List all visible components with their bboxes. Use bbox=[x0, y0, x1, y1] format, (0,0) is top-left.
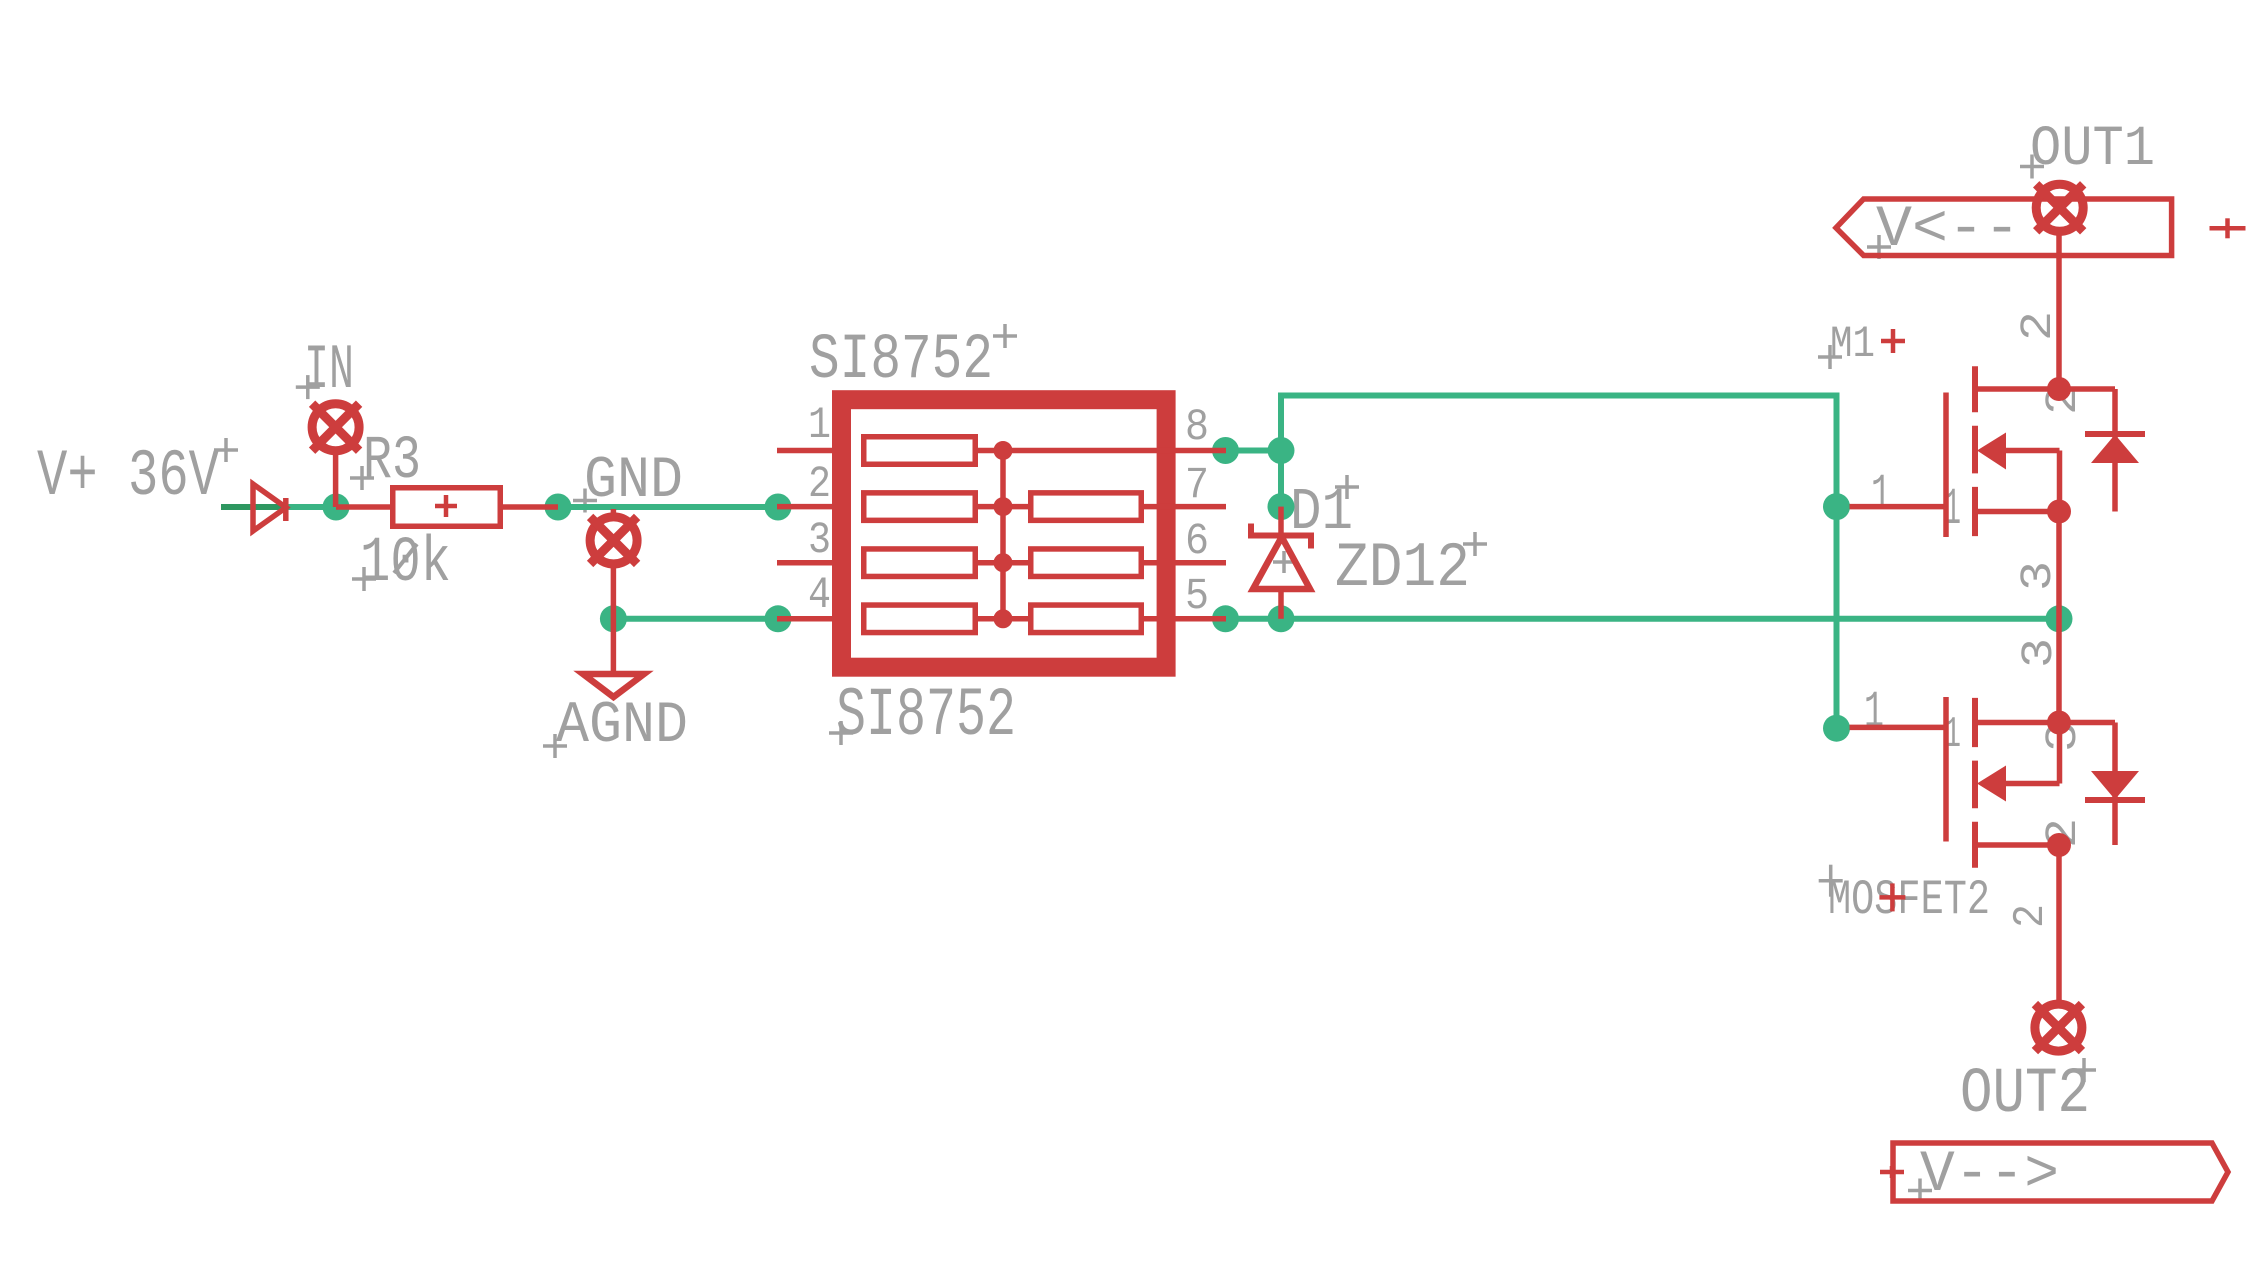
wire gate net horizontal bbox=[1278, 393, 1840, 399]
svg-text:4: 4 bbox=[808, 571, 831, 621]
wire gate net vertical bbox=[1834, 393, 1840, 729]
origin cross of ZD12 label bbox=[1463, 532, 1487, 556]
internal link right bbox=[1144, 504, 1174, 510]
wire AGND net to IC pin 4 bbox=[613, 616, 778, 622]
internal resistor right row 3 bbox=[1031, 549, 1142, 577]
junction D1 cathode bbox=[1268, 493, 1295, 520]
pad OUT1 (circle-X) bbox=[2036, 184, 2083, 231]
internal resistor left row 4 bbox=[864, 605, 976, 633]
internal link left bbox=[978, 504, 1028, 510]
red origin cross of MOSFET2 bbox=[1879, 883, 1905, 911]
transistor M1 (n-MOSFET) bbox=[1850, 366, 2146, 537]
pin 7 stub bbox=[1174, 504, 1226, 510]
zener diode D1 bbox=[1251, 507, 1311, 619]
internal link row 1 bbox=[978, 448, 1174, 454]
origin cross of MOSFET2 label bbox=[1819, 865, 1843, 897]
junction MOSFET2 pin3 bbox=[2047, 711, 2071, 735]
origin cross of M1 label bbox=[1818, 345, 1842, 369]
junction T pin8/gate net bbox=[1268, 437, 1295, 464]
svg-text:V+ 36V: V+ 36V bbox=[37, 439, 219, 514]
junction at R3 input bbox=[323, 494, 350, 521]
transistor MOSFET2 (n-MOSFET, mirrored) bbox=[1850, 697, 2146, 868]
internal resistor right row 4 bbox=[1031, 605, 1142, 633]
junction MOSFET2 gate bbox=[1823, 715, 1850, 742]
junction M1 drain bbox=[2047, 377, 2071, 401]
junction AGND net bbox=[600, 605, 627, 632]
svg-text:6: 6 bbox=[1185, 517, 1209, 567]
wire pin5 to D1 anode bbox=[1226, 616, 1282, 622]
op-isolator U1 SI8752 box bbox=[842, 400, 1167, 668]
pin 8 stub bbox=[1174, 448, 1226, 454]
junction IC pin 8 bbox=[1212, 437, 1239, 464]
internal junction bbox=[994, 609, 1013, 628]
origin cross inside D1 bbox=[1273, 551, 1295, 573]
wire up to corner bbox=[1278, 396, 1284, 451]
svg-text:5: 5 bbox=[1185, 572, 1209, 622]
internal link left bbox=[978, 560, 1028, 566]
svg-text:1: 1 bbox=[1864, 683, 1884, 742]
wire MOSFET2 to OUT2 pad bbox=[2056, 845, 2062, 1004]
origin cross of R3 label bbox=[350, 466, 374, 490]
internal resistor right row 2 bbox=[1031, 493, 1142, 520]
svg-text:AGND: AGND bbox=[556, 694, 688, 759]
resistor R3 left lead bbox=[336, 504, 392, 510]
wire V+ net dark segment bbox=[221, 504, 286, 510]
pin 1 stub bbox=[777, 448, 832, 454]
resistor R3 right lead bbox=[500, 504, 558, 510]
internal resistor left row 3 bbox=[864, 549, 976, 577]
wire down to D1 cathode bbox=[1278, 451, 1284, 507]
junction at R3 output bbox=[545, 494, 572, 521]
origin cross of flag V<-- bbox=[1867, 235, 1891, 259]
svg-text:SI8752: SI8752 bbox=[836, 677, 1016, 755]
resistor R3 body bbox=[393, 488, 501, 527]
internal link left bbox=[978, 616, 1028, 622]
pad GND (circle-X) bbox=[590, 517, 637, 564]
internal junction bbox=[994, 497, 1013, 516]
internal bus vertical bbox=[1000, 451, 1006, 619]
svg-text:2: 2 bbox=[808, 460, 831, 510]
slash of zero in 10k bbox=[394, 544, 417, 573]
pin wire pad IN to net bbox=[333, 451, 339, 507]
svg-text:1: 1 bbox=[808, 401, 831, 451]
input port arrow bbox=[253, 484, 286, 531]
junction IC pin 5 bbox=[1212, 605, 1239, 632]
origin cross of D1 label bbox=[1335, 475, 1359, 499]
wire M1 source to MOSFET2 bbox=[2056, 512, 2062, 723]
internal link right bbox=[1144, 616, 1174, 622]
pad OUT2 (circle-X) bbox=[2035, 1004, 2082, 1051]
pin 4 stub bbox=[777, 616, 832, 622]
internal resistor left row 2 bbox=[864, 493, 976, 520]
pad IN (circle-X) bbox=[312, 404, 359, 451]
origin cross of IN bbox=[296, 375, 320, 399]
pin wire GND pad upper stub bbox=[611, 509, 617, 517]
svg-text:SI8752: SI8752 bbox=[809, 325, 993, 397]
svg-text:ZD12: ZD12 bbox=[1335, 533, 1470, 604]
pin 5 stub bbox=[1174, 616, 1226, 622]
junction MOSFET2 pin2 bbox=[2047, 833, 2071, 857]
svg-text:2: 2 bbox=[2007, 904, 2056, 928]
origin cross of OUT1 bbox=[2020, 155, 2044, 179]
internal junction bbox=[994, 441, 1013, 460]
wire V+ net to junction bbox=[286, 504, 336, 510]
red origin cross of M1 bbox=[1881, 329, 1905, 353]
internal link right bbox=[1144, 560, 1174, 566]
origin cross of top SI8752 label bbox=[993, 324, 1017, 348]
internal resistor left row 1 bbox=[864, 437, 976, 465]
svg-text:3: 3 bbox=[808, 516, 831, 566]
wire OUT1 pad to M1 drain bbox=[2056, 232, 2062, 390]
junction M1 gate bbox=[1823, 493, 1850, 520]
junction IC pin 2 bbox=[765, 494, 792, 521]
junction IC pin 4 bbox=[765, 605, 792, 632]
wire pin8 to D1 column bbox=[1226, 448, 1282, 454]
origin cross of OUT2 bbox=[2072, 1058, 2096, 1082]
red origin cross of flag V<-- bbox=[2210, 218, 2246, 238]
svg-text:8: 8 bbox=[1185, 403, 1209, 453]
junction M1 source bbox=[2047, 500, 2071, 524]
red origin cross of R3 bbox=[435, 495, 457, 517]
svg-text:M1: M1 bbox=[1830, 320, 1875, 370]
svg-text:OUT1: OUT1 bbox=[2030, 118, 2155, 182]
origin cross of GND bbox=[573, 489, 597, 513]
pin 6 stub bbox=[1174, 560, 1226, 566]
wire GND net to IC pin 2 bbox=[558, 504, 778, 510]
ground symbol AGND bbox=[583, 674, 644, 697]
flag V<-- (net flag OUT1) bbox=[1836, 199, 2172, 256]
junction D1 anode bbox=[1268, 605, 1295, 632]
origin cross of bottom SI8752 label bbox=[829, 721, 853, 745]
wire source net long horizontal bbox=[1281, 616, 2059, 622]
pin wire GND pad to AGND bbox=[611, 564, 617, 674]
internal junction bbox=[994, 553, 1013, 572]
svg-text:10k: 10k bbox=[360, 528, 451, 600]
origin cross of V+ 36V label bbox=[214, 438, 238, 462]
svg-text:7: 7 bbox=[1185, 461, 1209, 511]
svg-text:IN: IN bbox=[304, 335, 354, 407]
origin cross of 10k label bbox=[352, 567, 376, 591]
svg-text:OUT2: OUT2 bbox=[1960, 1059, 2090, 1131]
pin 2 stub bbox=[777, 504, 832, 510]
svg-text:MOSFET2: MOSFET2 bbox=[1828, 872, 1990, 928]
junction source net at FETs bbox=[2046, 605, 2073, 632]
origin cross of AGND bbox=[543, 734, 567, 758]
svg-text:1: 1 bbox=[1871, 466, 1891, 525]
pin 3 stub bbox=[777, 560, 832, 566]
